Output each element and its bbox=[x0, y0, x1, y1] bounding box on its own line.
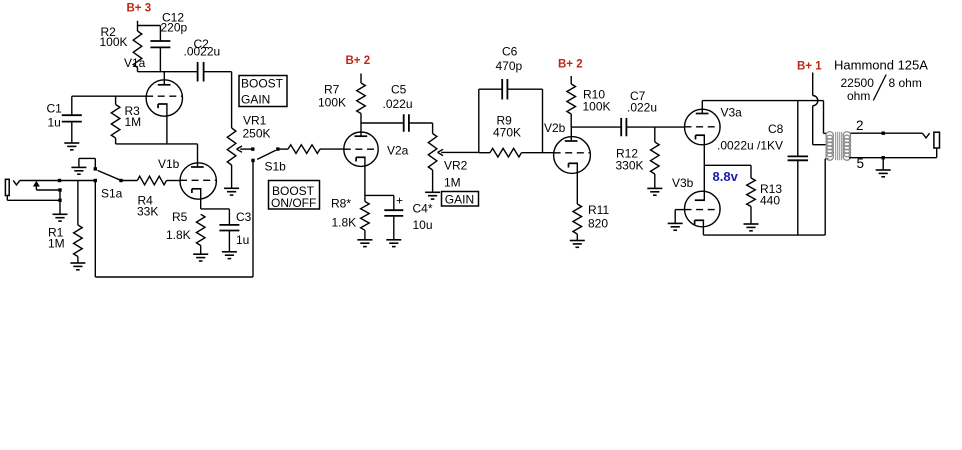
svg-text:BOOST: BOOST bbox=[241, 76, 284, 90]
svg-text:250K: 250K bbox=[243, 126, 271, 140]
svg-text:100K: 100K bbox=[100, 35, 128, 49]
svg-text:S1a: S1a bbox=[101, 186, 123, 200]
svg-text:ON/OFF: ON/OFF bbox=[271, 196, 316, 210]
svg-text:B+ 2: B+ 2 bbox=[558, 58, 583, 70]
svg-text:GAIN: GAIN bbox=[445, 192, 474, 206]
svg-text:1u: 1u bbox=[48, 115, 61, 129]
svg-text:.0022u: .0022u bbox=[184, 44, 221, 58]
svg-text:8 ohm: 8 ohm bbox=[889, 76, 922, 90]
svg-text:1u: 1u bbox=[236, 233, 249, 247]
svg-text:C1: C1 bbox=[47, 102, 63, 116]
svg-text:R8*: R8* bbox=[331, 197, 351, 211]
svg-text:R5: R5 bbox=[172, 210, 188, 224]
svg-text:440: 440 bbox=[760, 194, 780, 208]
svg-text:2: 2 bbox=[856, 118, 864, 133]
svg-text:ohm: ohm bbox=[847, 89, 870, 103]
svg-text:VR1: VR1 bbox=[243, 113, 267, 127]
svg-text:C6: C6 bbox=[502, 44, 518, 58]
svg-text:22500: 22500 bbox=[841, 76, 875, 90]
svg-text:C4*: C4* bbox=[413, 201, 433, 215]
svg-text:470K: 470K bbox=[493, 125, 521, 139]
svg-text:1M: 1M bbox=[125, 115, 142, 129]
svg-text:GAIN: GAIN bbox=[241, 92, 270, 106]
svg-text:470p: 470p bbox=[496, 59, 523, 73]
svg-text:.0022u /1KV: .0022u /1KV bbox=[717, 138, 783, 152]
svg-text:8.8v: 8.8v bbox=[713, 169, 739, 184]
svg-text:220p: 220p bbox=[161, 20, 188, 34]
svg-text:C8: C8 bbox=[768, 122, 784, 136]
svg-text:V1a: V1a bbox=[124, 56, 146, 70]
svg-text:1M: 1M bbox=[444, 175, 461, 189]
svg-text:V3b: V3b bbox=[672, 176, 694, 190]
svg-text:33K: 33K bbox=[137, 204, 158, 218]
svg-text:C3: C3 bbox=[236, 210, 252, 224]
svg-text:V1b: V1b bbox=[158, 157, 180, 171]
svg-text:100K: 100K bbox=[318, 96, 346, 110]
svg-text:100K: 100K bbox=[583, 99, 611, 113]
svg-text:1.8K: 1.8K bbox=[332, 215, 357, 229]
svg-text:B+ 3: B+ 3 bbox=[127, 3, 152, 15]
svg-text:.022u: .022u bbox=[383, 97, 413, 111]
svg-text:Hammond 125A: Hammond 125A bbox=[834, 57, 928, 72]
svg-text:10u: 10u bbox=[413, 218, 433, 232]
svg-text:B+ 1: B+ 1 bbox=[797, 61, 822, 73]
svg-text:C5: C5 bbox=[391, 82, 407, 96]
svg-text:S1b: S1b bbox=[265, 159, 287, 173]
svg-text:B+ 2: B+ 2 bbox=[346, 55, 371, 67]
svg-text:VR2: VR2 bbox=[444, 158, 468, 172]
svg-text:V2b: V2b bbox=[544, 121, 566, 135]
svg-text:R11: R11 bbox=[588, 203, 609, 217]
svg-text:820: 820 bbox=[588, 217, 608, 231]
svg-text:.022u: .022u bbox=[627, 101, 657, 115]
svg-text:R7: R7 bbox=[324, 82, 340, 96]
svg-text:V2a: V2a bbox=[387, 143, 409, 157]
svg-text:1M: 1M bbox=[48, 237, 65, 251]
svg-text:330K: 330K bbox=[616, 159, 644, 173]
svg-text:+: + bbox=[396, 194, 403, 208]
svg-text:V3a: V3a bbox=[721, 106, 743, 120]
svg-text:1.8K: 1.8K bbox=[166, 228, 191, 242]
svg-text:5: 5 bbox=[857, 156, 865, 171]
